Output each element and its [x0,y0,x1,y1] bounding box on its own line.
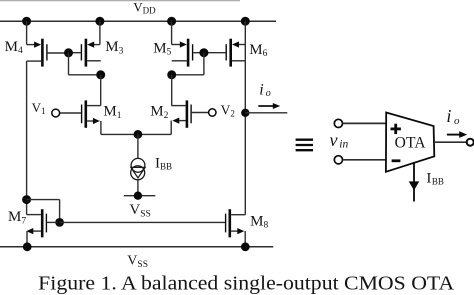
wire VSS rail [0,246,273,248]
current source IBB [131,158,146,179]
junction gates M3/M4 [64,48,73,57]
svg-text:M6: M6 [249,42,267,59]
wire OTA input - [343,159,386,161]
svg-text:M5: M5 [153,40,171,57]
svg-text:io: io [259,81,271,99]
label OTA plus input [391,124,401,134]
junction gates M5/M6 [199,48,208,57]
svg-text:V2: V2 [221,102,235,118]
junction output node [241,109,249,117]
terminal V2 [209,109,216,116]
transistor M5 [172,39,202,67]
svg-text:M8: M8 [250,213,268,230]
transistor M7 [26,209,57,237]
junction VSS tap [134,192,142,200]
wire M8 source to VSS [244,231,246,247]
wire M7 source to VSS [26,231,28,247]
wire M5 diode connection [172,53,204,75]
junction VDD/M3 [95,17,104,26]
svg-text:M1: M1 [103,104,121,121]
terminal V1 [52,109,60,117]
wire VDD to M4 [26,21,28,44]
svg-text:IBB: IBB [155,155,172,171]
transistor M4 [27,39,66,67]
arrow io (OTA) [447,131,467,138]
junction VDD/M4 [22,17,31,26]
svg-text:M3: M3 [105,39,123,56]
svg-text:vin: vin [330,130,349,151]
svg-text:VSS: VSS [127,254,148,270]
equivalence symbol [296,140,313,151]
wire current source to VSS tap [137,180,139,196]
svg-text:Figure 1. A balanced single-ou: Figure 1. A balanced single-output CMOS … [38,273,454,295]
op-amp OTA body [386,113,434,172]
terminal OTA input - [334,156,342,164]
svg-text:V1: V1 [32,100,46,116]
wire OTA output [434,141,466,143]
wire VDD rail [0,20,276,22]
svg-text:io: io [446,106,460,127]
wire M4 drain to M7 drain (left rail) [26,61,28,215]
junction M7 gate node [55,218,64,227]
terminal OTA input + [334,119,342,127]
arrow io (schematic) [258,103,280,109]
wire M1 source to tail [101,121,138,134]
junction tail node [134,130,143,139]
wire VDD to M6 [244,21,246,44]
wire M4 gate to M3 gate [64,52,71,54]
svg-text:VDD: VDD [133,0,156,16]
transistor M8 [226,209,246,237]
wire tail to current source [137,134,139,158]
svg-text:M4: M4 [5,39,23,56]
svg-text:IBB: IBB [426,170,444,186]
junction M7 drain node [22,195,31,204]
wire output [245,112,287,114]
junction M3 drain node [96,70,105,79]
wire M3 drain to M1 drain [100,75,102,106]
transistor M2 [171,100,208,127]
wire OTA input + [343,122,386,124]
wire M2 source to tail [138,121,171,135]
svg-text:M2: M2 [150,104,168,121]
wire M5 drain to M2 drain [171,75,173,106]
wire VDD to M3 [99,21,101,44]
svg-text:OTA: OTA [395,135,427,152]
arrow IBB bias [409,163,420,202]
wire M7 gate to M8 gate [60,221,225,223]
junction VSS/M8 [241,242,250,251]
junction VDD/M5 [167,17,176,26]
wire M3 diode connection [69,53,101,75]
transistor M1 [60,100,101,127]
wire M5 gate to M6 gate [202,52,226,54]
transistor M6 [226,39,245,67]
svg-text:M7: M7 [8,209,26,226]
power VSS tap [124,195,156,197]
transistor M3 [71,39,101,67]
wire VDD to M5 [171,21,173,44]
wire M7 gate-drain connection [27,200,60,223]
junction VSS/M7 [23,242,32,251]
terminal OTA output [467,139,474,146]
wire output node to M8 drain [244,113,246,215]
label OTA minus input [392,159,401,162]
wire M6 drain to output node [244,45,246,113]
svg-text:VSS: VSS [129,202,150,219]
junction M5 drain node [167,70,176,79]
junction VDD/M6 [241,17,250,26]
